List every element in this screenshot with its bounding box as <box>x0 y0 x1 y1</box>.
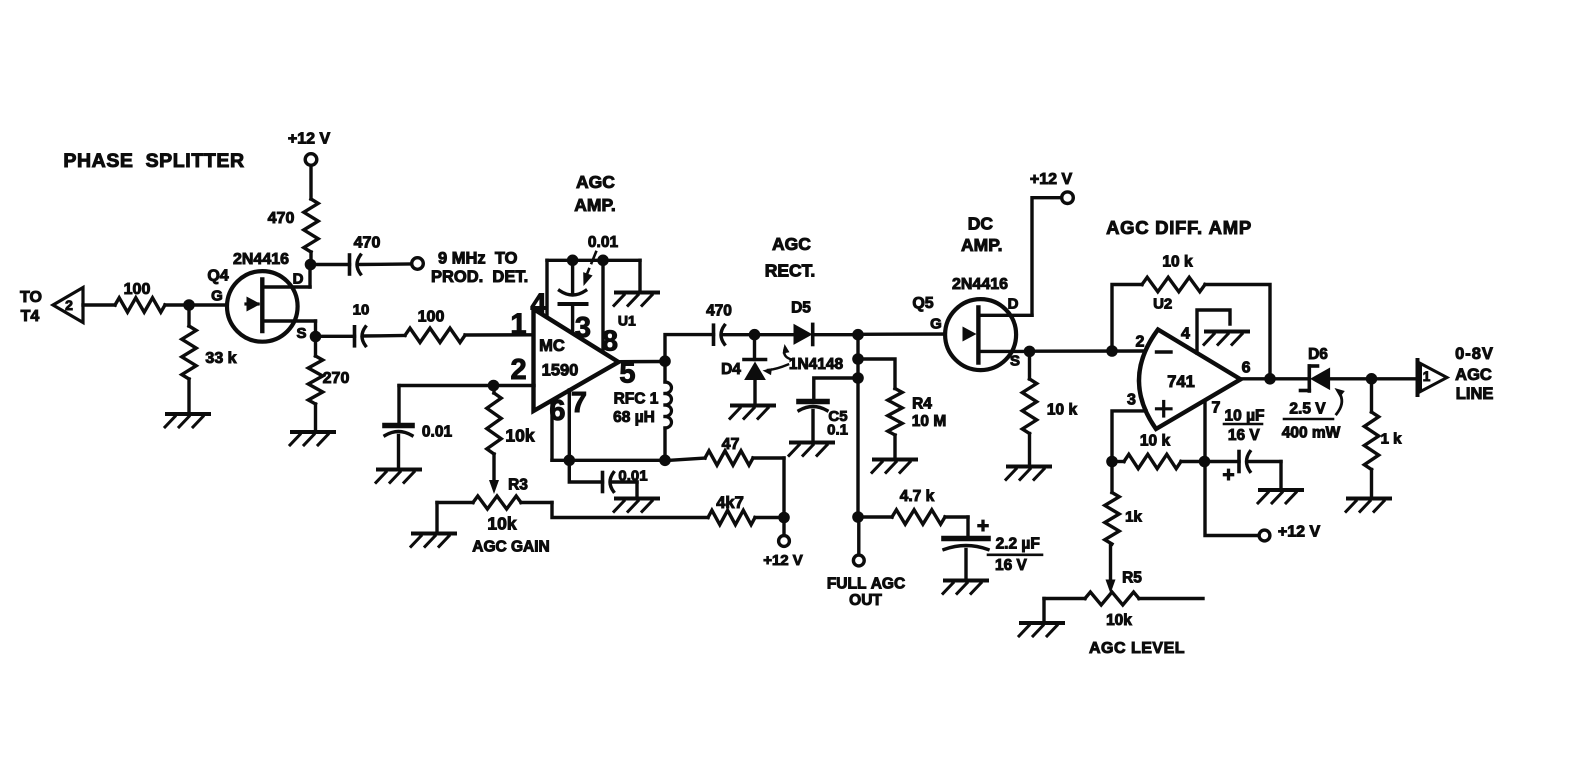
node pin7/cap <box>1199 456 1211 468</box>
svg-text:0.1: 0.1 <box>827 421 848 438</box>
svg-text:D4: D4 <box>721 361 741 378</box>
node bottom rail left <box>564 455 576 467</box>
wire op-amp output <box>1241 377 1309 380</box>
svg-text:D: D <box>1008 295 1019 312</box>
svg-text:RECT.: RECT. <box>765 260 816 280</box>
wire to +12V bottom <box>1205 462 1259 536</box>
terminal +12V (diff amp) <box>1259 523 1320 541</box>
transistor Q4 2N4416 <box>207 251 315 342</box>
terminal +12V (DC amp) <box>1030 171 1073 204</box>
resistor 10k (Q5 source) <box>1022 351 1077 464</box>
svg-text:1 k: 1 k <box>1381 430 1403 447</box>
ground below C5 <box>789 443 833 456</box>
svg-text:DC: DC <box>968 213 994 233</box>
wire pin 3 <box>1112 411 1146 462</box>
node top rail right <box>597 254 609 266</box>
wire J2 to R 100 <box>83 303 115 306</box>
resistor 4k7 <box>708 494 784 525</box>
diode D4 <box>721 335 765 404</box>
capacitor 0.01 (pin 3 top) <box>560 260 587 333</box>
svg-text:AMP.: AMP. <box>574 195 616 215</box>
wire to Q5 gate <box>858 332 962 336</box>
label 1N4148 with arrows <box>763 344 844 375</box>
node gate Q4 <box>183 299 195 311</box>
wire R100 to gate <box>165 303 246 306</box>
wire drain to +12V <box>1032 198 1062 316</box>
wire pin 8 to top rail <box>601 260 604 351</box>
rect main vertical <box>856 335 859 517</box>
svg-text:10k: 10k <box>505 425 534 445</box>
op-amp U2 741 <box>1139 295 1241 429</box>
svg-text:G: G <box>211 287 223 304</box>
svg-text:AGC: AGC <box>772 234 811 254</box>
svg-text:D6: D6 <box>1308 346 1328 363</box>
svg-text:2: 2 <box>65 297 73 313</box>
node top rail left <box>567 254 579 266</box>
svg-text:MC: MC <box>539 337 565 355</box>
ground below R5 <box>1019 599 1063 637</box>
ground below Q5 10k <box>1006 467 1050 480</box>
svg-text:AGC DIFF. AMP: AGC DIFF. AMP <box>1106 217 1252 238</box>
capacitor 2.2uF 16V <box>944 515 1042 578</box>
svg-text:1: 1 <box>1423 369 1431 384</box>
terminal +12V (phase splitter) <box>288 130 331 165</box>
pin 2 label (741) <box>1136 334 1145 351</box>
svg-text:16 V: 16 V <box>995 557 1028 574</box>
svg-text:2: 2 <box>511 354 527 386</box>
svg-text:2: 2 <box>1136 334 1145 351</box>
transistor Q5 2N4416 <box>912 276 1032 370</box>
svg-text:R5: R5 <box>1122 570 1142 587</box>
svg-text:2N4416: 2N4416 <box>233 251 289 268</box>
ground below bottom 0.01 <box>614 499 658 512</box>
wire pin 4 to top rail <box>545 260 548 316</box>
svg-text:10 µF: 10 µF <box>1225 408 1265 425</box>
svg-text:AGC GAIN: AGC GAIN <box>472 539 550 556</box>
ground top rail <box>614 260 658 305</box>
ground below D4 <box>730 406 774 419</box>
svg-text:1N4148: 1N4148 <box>789 356 844 373</box>
port J1 AGC line <box>1418 345 1494 403</box>
node pin3/10k/1k <box>1106 456 1118 468</box>
label 0.01 with arrow <box>583 234 618 286</box>
svg-text:47: 47 <box>722 436 740 453</box>
resistor 10k (AGC gain upper) <box>487 386 535 455</box>
title AGC RECT. <box>765 234 816 280</box>
top rail <box>547 259 640 262</box>
svg-text:+12 V: +12 V <box>288 130 331 147</box>
svg-text:270: 270 <box>323 370 350 387</box>
svg-text:1590: 1590 <box>542 361 579 379</box>
svg-text:1: 1 <box>510 308 526 340</box>
svg-text:3: 3 <box>575 312 591 344</box>
svg-text:+: + <box>1222 464 1234 487</box>
title DC AMP <box>961 213 1003 255</box>
title AGC AMP <box>574 172 616 215</box>
wire pin 5 out <box>619 360 666 364</box>
potentiometer R5 wiper arrow <box>1106 544 1143 594</box>
op-amp U1 MC1590 <box>534 309 636 411</box>
svg-text:FULL AGC: FULL AGC <box>827 576 905 593</box>
title AGC DIFF. AMP <box>1106 217 1252 238</box>
ground pin 4 <box>1204 332 1248 345</box>
wire pin 2 <box>399 384 534 387</box>
wire pin5 node up to 470 cap <box>665 335 714 362</box>
ground below 270 <box>290 432 334 445</box>
svg-text:100: 100 <box>418 308 445 325</box>
svg-text:RFC 1: RFC 1 <box>614 391 659 408</box>
node pin 2 <box>1106 345 1118 357</box>
terminal +12V (AGC amp) <box>763 518 803 569</box>
resistor 270 <box>308 337 349 431</box>
svg-text:16 V: 16 V <box>1228 427 1261 444</box>
svg-text:TO: TO <box>20 289 42 306</box>
pin 6 label <box>549 395 565 427</box>
svg-text:AGC: AGC <box>576 172 615 192</box>
ground below 0.01 pin2 <box>376 470 420 483</box>
svg-text:0.01: 0.01 <box>422 424 453 441</box>
svg-text:100: 100 <box>124 281 151 298</box>
svg-text:Q4: Q4 <box>207 267 228 284</box>
svg-text:10 k: 10 k <box>1140 433 1171 450</box>
svg-text:AGC LEVEL: AGC LEVEL <box>1089 640 1185 657</box>
feedback resistor 10k <box>1112 254 1270 379</box>
capacitor 470 (to prod det) <box>311 234 412 274</box>
node pin 2 <box>488 380 500 392</box>
svg-text:4: 4 <box>1181 326 1190 343</box>
svg-text:470: 470 <box>706 303 732 320</box>
svg-text:7: 7 <box>571 387 587 419</box>
pin 1 label <box>510 308 526 340</box>
ground below output 1k <box>1346 499 1390 512</box>
pin 2 label <box>511 354 527 386</box>
svg-text:2.2 µF: 2.2 µF <box>996 536 1040 553</box>
resistor 1k (output) <box>1364 379 1402 496</box>
svg-text:S: S <box>1010 352 1020 369</box>
pin 7 label (741) <box>1211 400 1220 417</box>
potentiometer R3 wiper arrow <box>489 454 528 494</box>
pin 8 label <box>602 325 618 357</box>
svg-text:10 k: 10 k <box>1047 402 1078 419</box>
potentiometer R3 10k AGC GAIN <box>437 496 552 556</box>
wire R3 to 4k7 <box>552 503 708 518</box>
svg-text:6: 6 <box>1242 360 1251 377</box>
svg-text:0.01: 0.01 <box>618 467 647 484</box>
svg-text:4k7: 4k7 <box>716 494 744 512</box>
resistor 100 (pin1) <box>405 308 465 342</box>
svg-text:LINE: LINE <box>1456 385 1494 403</box>
svg-text:0.01: 0.01 <box>588 234 619 251</box>
capacitor 10uF 16V <box>1205 408 1282 488</box>
svg-text:U1: U1 <box>618 313 636 329</box>
pin 4 label <box>530 288 546 320</box>
ground below 33k <box>165 414 209 427</box>
svg-text:+12 V: +12 V <box>1278 523 1321 540</box>
svg-text:PHASE SPLITTER: PHASE SPLITTER <box>63 150 244 172</box>
bottom rail <box>552 459 665 462</box>
svg-text:D5: D5 <box>791 300 811 317</box>
svg-text:T4: T4 <box>21 308 40 325</box>
node source Q4 <box>310 331 322 343</box>
svg-text:+12 V: +12 V <box>763 552 803 569</box>
svg-text:10 M: 10 M <box>912 413 946 430</box>
svg-text:PROD. DET.: PROD. DET. <box>431 268 528 286</box>
svg-text:9 MHz TO: 9 MHz TO <box>438 249 518 267</box>
svg-text:AGC: AGC <box>1455 366 1492 384</box>
pin 3 label <box>575 312 591 344</box>
wire to J1 <box>1372 377 1417 380</box>
svg-text:400 mW: 400 mW <box>1282 425 1341 442</box>
node 4.7k branch <box>852 511 864 523</box>
node R4 branch <box>852 353 864 365</box>
svg-text:2.5 V: 2.5 V <box>1289 401 1326 418</box>
node output/feedback <box>1264 373 1276 385</box>
ground below R3 <box>411 503 455 547</box>
resistor 33k <box>182 305 237 412</box>
wire pin 6 to bottom rail <box>550 401 553 460</box>
svg-text:G: G <box>930 315 942 332</box>
diode D5 <box>755 300 859 345</box>
node output/1k <box>1366 373 1378 385</box>
wire pin 7 <box>1203 401 1206 462</box>
wire pin 7 to bottom rail <box>568 390 571 460</box>
ground below 10uF <box>1258 490 1302 503</box>
resistor 470 (drain) <box>268 166 319 265</box>
ground below R4 <box>872 460 916 473</box>
node source Q5 <box>1024 346 1036 358</box>
pin 4 label (741) <box>1181 326 1190 343</box>
svg-text:4: 4 <box>530 288 546 320</box>
svg-text:10 k: 10 k <box>1162 254 1193 271</box>
svg-text:OUT: OUT <box>849 592 882 609</box>
svg-text:+: + <box>977 515 989 538</box>
svg-text:68 µH: 68 µH <box>613 409 655 426</box>
terminal 9 MHz to prod det <box>412 249 528 286</box>
inductor RFC1 68uH <box>613 361 671 460</box>
ground below 2.2uF <box>943 581 987 594</box>
node pin 5 <box>659 355 671 367</box>
terminal FULL AGC OUT <box>827 517 905 609</box>
resistor 47 <box>664 436 785 518</box>
svg-text:470: 470 <box>268 210 295 227</box>
resistor 10k (pin 3) <box>1112 433 1205 469</box>
svg-text:+12 V: +12 V <box>1030 171 1073 188</box>
capacitor C5 0.1 <box>799 378 858 440</box>
diode D6 zener 2.5V <box>1301 346 1372 391</box>
pin 5 label <box>619 357 635 389</box>
node 47/4k7/+12V <box>778 512 790 524</box>
resistor 1k (AGC level) <box>1105 462 1143 545</box>
wire to pin 1 <box>465 333 534 337</box>
capacitor 0.01 (pin 2) <box>385 386 452 468</box>
svg-text:S: S <box>296 325 306 342</box>
svg-text:D: D <box>293 270 304 287</box>
svg-text:10k: 10k <box>487 513 516 533</box>
svg-text:7: 7 <box>1211 400 1220 417</box>
svg-text:AMP.: AMP. <box>961 235 1003 255</box>
svg-text:2N4416: 2N4416 <box>952 276 1008 293</box>
svg-text:10k: 10k <box>1106 612 1132 629</box>
node D4 <box>749 329 761 341</box>
label 2.5V 400mW with arrow <box>1282 388 1345 442</box>
svg-text:4.7 k: 4.7 k <box>900 488 935 505</box>
title PHASE SPLITTER <box>63 150 244 172</box>
svg-text:Q5: Q5 <box>912 295 933 312</box>
pin 3 label (741) <box>1127 392 1136 409</box>
svg-text:U2: U2 <box>1153 295 1172 312</box>
svg-text:R4: R4 <box>912 396 932 413</box>
pin 4 ground wire <box>1197 310 1230 353</box>
node drain Q4 <box>305 259 317 271</box>
svg-text:33 k: 33 k <box>205 350 236 367</box>
svg-text:R3: R3 <box>508 477 528 494</box>
svg-text:470: 470 <box>354 234 381 251</box>
resistor R4 10M <box>858 359 946 458</box>
resistor 100 (gate) <box>115 281 165 312</box>
svg-text:0-8V: 0-8V <box>1455 345 1494 363</box>
potentiometer R5 10k AGC LEVEL <box>1044 592 1203 657</box>
wire source to op-amp <box>1030 349 1147 353</box>
node D5 cathode <box>852 329 864 341</box>
svg-text:3: 3 <box>1127 392 1136 409</box>
capacitor 470 (AGC rect) <box>706 303 754 345</box>
capacitor 10 <box>316 301 406 345</box>
svg-text:1k: 1k <box>1125 508 1142 525</box>
pin 6 label (741) <box>1242 360 1251 377</box>
svg-text:741: 741 <box>1167 373 1195 391</box>
resistor 4.7k <box>858 488 968 524</box>
port J2 TO T4 <box>20 288 83 325</box>
node C5 branch <box>852 372 864 384</box>
svg-text:10: 10 <box>353 301 370 318</box>
pin 7 label <box>571 387 587 419</box>
capacitor 0.01 (bottom bypass) <box>569 460 647 496</box>
node bottom rail right <box>659 455 671 467</box>
